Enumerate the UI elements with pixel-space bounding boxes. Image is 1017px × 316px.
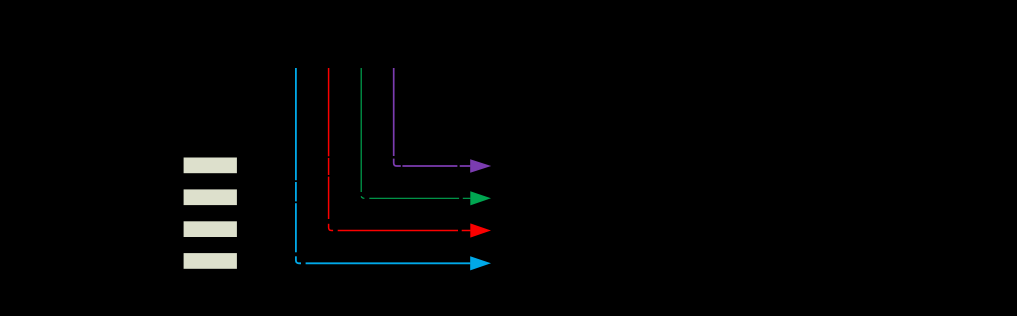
arrowhead blue <box>470 256 491 270</box>
gap on purple horizontal before arrow <box>457 163 459 169</box>
legend box 3 <box>183 221 238 238</box>
gap on red vertical <box>326 175 331 177</box>
gap on blue horizontal after corner <box>301 261 306 267</box>
gap on red horizontal after corner <box>333 228 338 234</box>
gap on blue vertical above corner <box>294 252 299 256</box>
gap on purple vertical above corner <box>391 156 396 159</box>
gap on red horizontal before arrow <box>458 228 462 234</box>
wire green polyline <box>361 68 470 198</box>
legend box 2 <box>183 189 238 206</box>
legend box 1 <box>183 157 238 174</box>
gap on green horizontal before arrow <box>459 196 463 202</box>
wire red polyline <box>329 68 471 231</box>
gap on red vertical <box>326 156 331 158</box>
gap on purple horizontal after corner <box>401 163 403 169</box>
arrowhead red <box>470 223 491 237</box>
gap on green vertical above corner <box>359 192 364 196</box>
gap on blue vertical <box>294 180 299 182</box>
arrowhead purple <box>470 159 491 173</box>
legend box 4 <box>183 253 238 270</box>
gap on green horizontal after corner <box>364 196 369 202</box>
arrowhead green <box>470 191 491 205</box>
wire purple polyline <box>394 68 471 166</box>
wire blue polyline <box>296 68 470 263</box>
gap on red vertical above corner <box>326 219 331 224</box>
gap on blue vertical <box>294 201 299 203</box>
